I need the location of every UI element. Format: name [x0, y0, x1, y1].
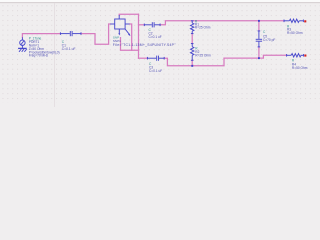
label SNP1	[113, 39, 121, 43]
resistor R2	[191, 44, 194, 61]
label Freq=70 MHz	[29, 54, 49, 58]
junction node at C5 bottom	[258, 57, 260, 59]
svg-text:SNP1: SNP1	[113, 39, 121, 43]
svg-text:R=25 Ohm: R=25 Ohm	[195, 26, 211, 30]
wire R2 to bottom rail	[191, 60, 193, 66]
label C (C3 type, teal)	[149, 62, 152, 66]
label P=polar(dbmtow(0),0)	[29, 50, 60, 54]
resistor R3	[284, 19, 303, 22]
label R (R3 type, teal)	[287, 24, 290, 28]
label R3	[287, 28, 291, 32]
label P_1Tone (teal)	[29, 37, 42, 41]
wire long vertical node at x=138.5	[138, 14, 140, 58]
label C=70 pF (C5)	[263, 38, 275, 42]
label Z=50 Ohm	[29, 47, 44, 51]
svg-text:R4: R4	[292, 62, 296, 66]
label R2	[195, 50, 199, 54]
junction node at C5 top	[258, 20, 260, 22]
label C5	[263, 34, 267, 38]
svg-text:Freq=70 MHz: Freq=70 MHz	[29, 54, 49, 58]
resistor R4	[287, 54, 304, 57]
open node (red) at R4 output	[304, 55, 306, 57]
wire SNP1 top pin loop	[119, 13, 138, 16]
wire top rail C2 to R3	[160, 21, 284, 25]
wire C1 to SNP1 pin1 (down-around jog)	[81, 24, 110, 44]
svg-text:R=50 Ohm: R=50 Ohm	[292, 66, 308, 70]
label PORT1	[29, 40, 40, 44]
label R=50 Ohm (R4)	[292, 66, 308, 70]
label R4	[292, 62, 296, 66]
wire R1 to R2 link	[191, 34, 193, 44]
wire C5 bottom stub	[258, 47, 260, 58]
label C (C1 type, teal)	[62, 40, 65, 44]
capacitor C3	[147, 56, 164, 61]
label R (R1 type, teal)	[195, 20, 198, 24]
label R (R4 type, teal)	[292, 59, 295, 63]
wire stub to C2	[139, 24, 145, 26]
svg-text:File="TC1-1-13M+_S4PUNITY.S4P": File="TC1-1-13M+_S4PUNITY.S4P"	[113, 43, 176, 47]
label C=0.1 uF (C3)	[149, 69, 162, 73]
svg-text:R=50 Ohm: R=50 Ohm	[287, 31, 303, 35]
label R=25 Ohm (R2)	[195, 54, 211, 58]
wire port to C1	[22, 34, 60, 38]
S4P block SNP1	[110, 15, 130, 36]
label R (R2 type, teal)	[195, 47, 198, 51]
svg-text:C=0.1 uF: C=0.1 uF	[62, 47, 76, 51]
label C3	[149, 65, 153, 69]
label R=50 Ohm (R3)	[287, 31, 303, 35]
svg-text:C=0.1 uF: C=0.1 uF	[149, 35, 162, 39]
label C=0.1 uF (C1)	[62, 47, 76, 51]
open node (red) at R3 output	[304, 20, 306, 22]
port PORT1 (P_1Tone)	[18, 37, 27, 52]
svg-text:R=25 Ohm: R=25 Ohm	[195, 54, 211, 58]
capacitor C5	[256, 31, 262, 47]
label C2	[149, 32, 153, 36]
wire SNP1 ref pin down	[121, 38, 139, 51]
label File=TC1-1-13M+_S4PUNITY.S4P	[113, 43, 176, 47]
svg-text:C=70 pF: C=70 pF	[263, 38, 275, 42]
capacitor C1	[60, 31, 81, 36]
label C (C2 type, teal)	[149, 28, 152, 32]
label R1	[195, 23, 199, 27]
label C (C5 type, teal)	[263, 30, 266, 34]
wire SNP1 right pin down	[130, 24, 132, 50]
capacitor C2	[144, 22, 160, 27]
resistor R1	[191, 21, 194, 34]
wire C5 top stub	[258, 21, 260, 31]
label C1	[62, 44, 66, 48]
wire stub to C3	[139, 57, 148, 59]
label C=0.1 uF (C2)	[149, 35, 162, 39]
wire bottom rail C3 to R4	[164, 55, 286, 66]
label R=25 Ohm (R1)	[195, 26, 211, 30]
label Num=1	[29, 44, 40, 48]
label SNP (teal)	[113, 36, 119, 40]
junction node at R2 bottom rail	[191, 65, 193, 67]
svg-text:C=0.1 uF: C=0.1 uF	[149, 69, 162, 73]
